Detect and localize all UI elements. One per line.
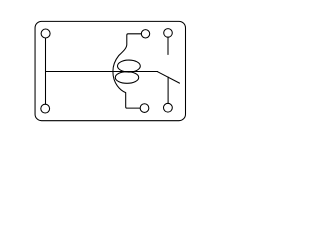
wire coil spiral lead (top terminal around loops to bottom terminal) xyxy=(113,34,141,108)
terminal A1 (top-left) xyxy=(41,29,50,38)
wire common horizontal xyxy=(46,71,158,73)
wire left vertical xyxy=(45,38,47,104)
terminal A2 (bottom-left) xyxy=(41,104,50,113)
switch arm xyxy=(158,72,180,83)
terminal coil top xyxy=(141,30,149,38)
terminal NC contact xyxy=(164,103,173,112)
wire NC contact stem xyxy=(167,77,169,103)
coil L1 upper loop xyxy=(117,60,140,72)
coil L1 lower loop xyxy=(115,72,138,84)
terminal NO contact xyxy=(164,29,173,38)
wire NO contact stem xyxy=(167,37,169,54)
terminal coil bottom xyxy=(140,104,149,113)
relay body outline xyxy=(35,21,185,120)
